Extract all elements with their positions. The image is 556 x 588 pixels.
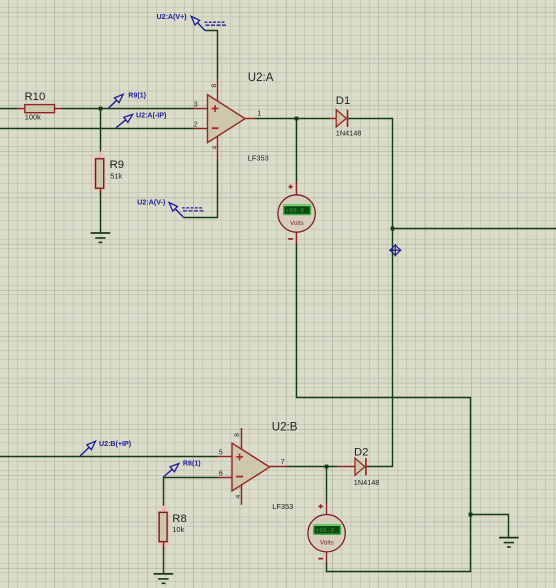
svg-text:U2:A(V-): U2:A(V-) — [137, 199, 166, 207]
diode D2 — [355, 458, 365, 475]
svg-text:2: 2 — [194, 122, 198, 129]
resistor R10 — [25, 105, 55, 113]
diode D2 anode pin — [337, 466, 355, 468]
wire R8 to ground — [163, 547, 165, 574]
ground under R8 — [154, 573, 174, 575]
svg-text:8: 8 — [211, 84, 218, 88]
wire node down to R9 — [100, 109, 102, 155]
svg-text:LF353: LF353 — [272, 502, 293, 511]
node junction output/voltmeter V2 — [325, 465, 329, 469]
op-amp U2:B pin 8 (V+) stub — [241, 428, 243, 449]
svg-text:1N4148: 1N4148 — [336, 128, 362, 137]
voltmeter V2 top pin — [326, 503, 328, 515]
wire node down to voltmeter V1 — [296, 119, 298, 184]
resistor R8 top pin — [163, 510, 165, 513]
node junction to right rail — [391, 227, 395, 231]
wire V+ terminal to op-amp pin 8 — [205, 31, 217, 80]
power terminal U2:A(V-) arrow — [175, 209, 183, 217]
voltmeter V1 bottom pin — [296, 232, 298, 244]
net label U2:A(-IP) arrow — [116, 120, 126, 128]
svg-text:LF353: LF353 — [248, 153, 269, 162]
svg-text:3: 3 — [194, 102, 198, 109]
node junction R10/R9/pin3 — [99, 107, 103, 111]
op-amp U2:B body — [232, 443, 270, 491]
svg-text:R9: R9 — [110, 159, 124, 171]
voltmeter V1 top pin — [296, 183, 298, 195]
op-amp U2:A pin 8 (V+) — [217, 79, 219, 101]
svg-text:4: 4 — [211, 145, 218, 149]
svg-text:100k: 100k — [25, 113, 41, 122]
svg-text:R10: R10 — [25, 91, 46, 103]
diode D2 cathode bar — [365, 458, 367, 475]
svg-text:U2:A: U2:A — [248, 72, 274, 84]
wire op-amp pin 2 from left edge — [0, 128, 194, 130]
svg-text:51k: 51k — [110, 172, 122, 181]
resistor R10 left pin — [18, 108, 26, 110]
wire op-amp output to D2 — [287, 466, 337, 468]
op-amp U2:B output pin 7 — [270, 466, 288, 468]
resistor R9 bottom pin — [100, 188, 102, 192]
power terminal U2:A(V-) hidden-pin dashes — [182, 207, 204, 209]
svg-text:1: 1 — [257, 111, 261, 118]
op-amp U2:A output pin 1 — [245, 118, 256, 120]
wire D2 cathode to vertical rail — [367, 466, 394, 468]
resistor R9 top pin — [100, 154, 102, 159]
resistor R8 bottom pin — [163, 541, 165, 547]
svg-text:6: 6 — [219, 471, 223, 478]
voltmeter V2 — [308, 504, 345, 558]
wire V- terminal to op-amp pin 4 — [183, 160, 217, 218]
svg-text:7: 7 — [281, 459, 285, 466]
svg-text:U2:A(V+): U2:A(V+) — [157, 13, 188, 21]
net label R9(1) arrow — [109, 100, 117, 108]
node junction output/voltmeter — [295, 117, 299, 121]
diode D1 cathode bar — [347, 110, 349, 127]
resistor R9 — [99, 152, 102, 160]
wire op-amp output to D1 — [255, 118, 329, 120]
diode D1 anode pin — [329, 118, 336, 120]
op-amp U2:A pin 4 (V-) — [217, 136, 219, 160]
svg-text:5: 5 — [219, 450, 223, 457]
op-amp U2:A pin 2 — [194, 128, 208, 130]
svg-text:4: 4 — [235, 494, 242, 498]
wire node down to voltmeter V2 — [326, 467, 328, 504]
svg-text:10k: 10k — [172, 525, 184, 534]
op-amp U2:B pin 6 — [218, 477, 233, 479]
origin marker (blue diamond crosshair) — [389, 244, 401, 256]
wire R9 to ground — [100, 192, 102, 233]
voltmeter V1 — [278, 185, 315, 239]
svg-text:Volts: Volts — [290, 220, 304, 227]
op-amp U2:B pin 5 — [218, 456, 233, 458]
diode D1 — [336, 110, 346, 127]
wire R10 input from left edge — [0, 108, 18, 110]
svg-text:+88.8: +88.8 — [316, 527, 335, 534]
svg-text:D1: D1 — [336, 95, 350, 107]
svg-text:U2:B(+IP): U2:B(+IP) — [99, 440, 132, 448]
ground bottom right — [499, 537, 519, 539]
power terminal U2:A(V+) hidden-pin dashes — [205, 21, 227, 23]
wire voltmeter V1 down across to right rail — [297, 244, 471, 572]
svg-text:U2:B: U2:B — [272, 421, 298, 433]
svg-text:1N4148: 1N4148 — [354, 478, 380, 487]
wire R8 corner to op-amp pin 6 — [164, 478, 219, 511]
svg-text:R9(1): R9(1) — [128, 92, 146, 100]
wire voltmeter V2 to bottom rail — [327, 563, 472, 572]
svg-text:D2: D2 — [354, 446, 368, 458]
svg-text:R8: R8 — [172, 513, 186, 525]
svg-text:8: 8 — [234, 433, 241, 437]
wire D1 cathode right then down to D2 — [348, 119, 392, 467]
net label U2:B(+IP) arrow — [80, 447, 89, 456]
wire junction to ground — [471, 515, 509, 538]
op-amp U2:A pin 3 — [194, 108, 208, 110]
ground under R9 — [91, 232, 111, 234]
net label R8(1) arrow — [164, 469, 173, 477]
wire junction to right edge — [393, 228, 556, 230]
wire op-amp pin 5 from left edge — [0, 456, 218, 458]
wire R10 to node and op-amp pin 3 — [62, 108, 195, 110]
power terminal U2:A(V+) arrow — [197, 23, 205, 31]
resistor R8 — [162, 506, 165, 514]
voltmeter V2 bottom pin — [326, 552, 328, 564]
resistor R10 right pin — [55, 108, 63, 110]
svg-text:U2:A(-IP): U2:A(-IP) — [136, 112, 167, 120]
svg-text:+88.8: +88.8 — [286, 207, 305, 214]
svg-text:Volts: Volts — [320, 540, 334, 547]
op-amp U2:B pin 4 (V-) stub — [241, 485, 243, 505]
svg-text:R8(1): R8(1) — [183, 460, 201, 468]
node junction bottom rail / ground branch — [469, 513, 473, 517]
op-amp U2:A body — [208, 95, 246, 143]
